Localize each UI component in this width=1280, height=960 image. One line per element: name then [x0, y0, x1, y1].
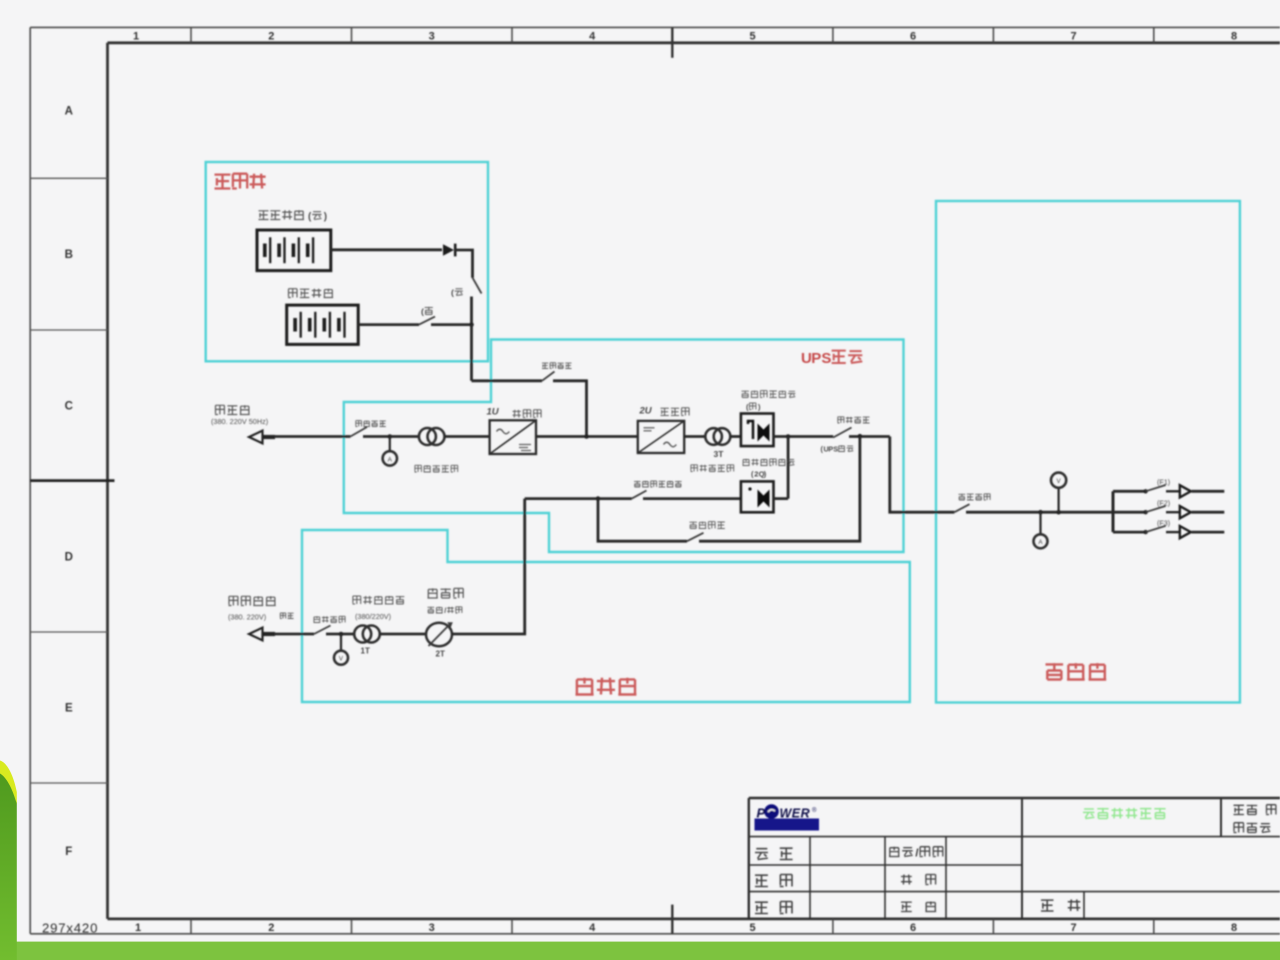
label backup source — [229, 596, 276, 605]
svg-text:S: S — [821, 350, 831, 367]
label regulator — [428, 588, 464, 598]
UPS main section box — [344, 340, 904, 553]
svg-text:(: ( — [451, 288, 454, 298]
label approve row — [755, 848, 793, 860]
column ticks top/bottom — [190, 27, 192, 42]
maintenance bypass drop — [598, 499, 687, 542]
wire output switch to corner — [849, 435, 890, 438]
svg-text:5: 5 — [750, 31, 756, 43]
svg-text:E: E — [65, 703, 73, 715]
svg-text:D: D — [65, 551, 73, 563]
sheet outer frame — [30, 26, 1280, 28]
svg-text:6: 6 — [910, 922, 916, 934]
label input switch — [356, 421, 386, 427]
wire switch to junction — [470, 297, 473, 325]
bypass meter stub — [340, 634, 342, 651]
bypass cabinet section box — [302, 530, 910, 702]
svg-text:/: / — [444, 606, 446, 615]
feeder branch 1 — [1113, 490, 1146, 493]
battery bank 2 label — [288, 289, 333, 298]
svg-text:): ) — [324, 212, 327, 223]
battery bank 2 — [287, 305, 359, 344]
label DC input switch — [542, 363, 572, 369]
DC bus down to UPS — [470, 325, 473, 381]
label bypass input switch — [314, 616, 346, 622]
svg-text:2: 2 — [268, 922, 274, 934]
svg-text:A: A — [65, 105, 73, 117]
DC link to inverter bus — [553, 381, 587, 437]
maintenance bypass wire to riser up — [699, 437, 860, 542]
svg-text:5: 5 — [750, 922, 756, 934]
svg-text:1: 1 — [135, 922, 141, 934]
center mark top — [671, 27, 673, 57]
rectifier DC switch blade — [542, 372, 555, 381]
label date cell — [901, 902, 936, 912]
input switch blade — [350, 427, 367, 437]
wire to bypass static box — [643, 497, 741, 500]
svg-text:2: 2 — [268, 31, 274, 43]
row divider lines left strip — [30, 177, 107, 179]
DC link horizontal with switch — [472, 379, 543, 382]
company name green — [1083, 808, 1166, 819]
rectifier U1 box — [490, 420, 536, 454]
title block horizontals — [749, 836, 1280, 838]
svg-text:P: P — [811, 350, 821, 367]
svg-text:2T: 2T — [436, 650, 445, 659]
svg-text:(380. 220V): (380. 220V) — [228, 613, 266, 622]
label bypass transformer — [353, 596, 405, 604]
label output switch — [838, 417, 870, 423]
svg-text:C: C — [65, 400, 73, 412]
battery bank 1 — [257, 230, 331, 271]
label mains source — [215, 405, 250, 414]
center mark bottom — [671, 905, 673, 934]
svg-text:1U: 1U — [487, 407, 500, 418]
wire mains to input switch — [274, 435, 350, 438]
wire to static switch — [730, 435, 741, 438]
svg-text:4: 4 — [589, 922, 596, 934]
center mark left — [30, 479, 114, 482]
switch 1K blade (vertical wire) — [473, 278, 482, 294]
wire battery2 to switch — [358, 323, 419, 326]
feeder meter down — [1038, 510, 1043, 515]
wire transformer to regulator — [380, 633, 426, 636]
svg-text:(F2): (F2) — [1157, 498, 1170, 507]
switch 2K blade — [419, 317, 435, 325]
label review row — [755, 875, 792, 887]
feeder meter up — [1056, 510, 1061, 515]
static bypass input wire — [525, 497, 632, 500]
mains source arrow — [249, 431, 263, 444]
svg-text:(F1): (F1) — [1157, 478, 1170, 487]
green ribbon yellow highlight — [0, 761, 17, 805]
label static switch — [742, 391, 796, 398]
voltage regulator — [426, 623, 452, 647]
wire bypass box to riser — [774, 497, 789, 500]
svg-text:1: 1 — [133, 31, 139, 43]
label bypass static switch — [743, 459, 795, 466]
svg-text:3: 3 — [429, 922, 435, 934]
wire static switch to output — [774, 435, 834, 438]
svg-text:7: 7 — [1071, 31, 1077, 43]
wire regulator up to static bypass — [452, 499, 525, 634]
svg-text:S: S — [833, 445, 838, 454]
wire inverter to output transformer — [684, 435, 705, 438]
svg-text:2U: 2U — [639, 406, 653, 417]
feeder bus — [1112, 491, 1115, 532]
title block outer — [749, 797, 1280, 799]
label static bypass input — [634, 481, 682, 487]
svg-text:®: ® — [812, 807, 817, 814]
svg-text:/: / — [915, 848, 918, 860]
feeder cabinet section box — [936, 201, 1240, 703]
svg-text:(380. 220V 50Hz): (380. 220V 50Hz) — [211, 417, 268, 426]
company logo — [755, 819, 820, 831]
title block verticals — [809, 837, 811, 919]
label scale cell — [901, 875, 936, 885]
DC panel section box — [206, 162, 488, 361]
svg-text:4: 4 — [589, 31, 596, 43]
svg-text:B: B — [65, 249, 73, 261]
wire rectifier to DC junction to inverter — [536, 435, 638, 438]
label feeder input — [959, 494, 991, 500]
bypass input switch blade — [314, 626, 331, 635]
wire battery1 to diode — [331, 248, 442, 251]
label feeder cabinet (red) — [1046, 663, 1107, 679]
svg-text:1T: 1T — [361, 647, 370, 656]
sheet inner border — [108, 41, 1280, 44]
wire diode to corner and down — [454, 250, 473, 278]
label check row — [755, 902, 792, 914]
svg-text:A: A — [388, 456, 393, 463]
output isolation transformer — [705, 428, 722, 445]
label maintenance bypass — [690, 522, 725, 529]
feeder input switch blade — [954, 504, 969, 512]
svg-text:6: 6 — [910, 31, 916, 43]
wire backup to bypass switch — [274, 633, 314, 636]
svg-text:P: P — [757, 806, 766, 821]
bypass isolation transformer — [354, 626, 371, 643]
static switch box (main) — [741, 414, 774, 447]
svg-text:3T: 3T — [714, 449, 725, 459]
svg-text:8: 8 — [1231, 31, 1237, 43]
project cell text — [1234, 805, 1276, 815]
label bypass cabinet (red) — [576, 678, 637, 695]
green ribbon bottom band — [10, 942, 1280, 960]
svg-text:(380/220V): (380/220V) — [355, 612, 391, 621]
output switch blade — [833, 428, 851, 438]
label drawing number cell — [1041, 899, 1080, 911]
backup source arrow — [249, 628, 263, 641]
svg-text:F: F — [65, 846, 72, 858]
wire switch2 to DC bus — [431, 323, 472, 326]
svg-text:7: 7 — [1071, 922, 1077, 934]
riser to bypass static output — [787, 437, 790, 499]
svg-text:297x420: 297x420 — [42, 920, 98, 935]
maintenance bypass switch blade — [687, 533, 704, 541]
bypass static switch box — [741, 481, 774, 512]
static bypass switch blade — [632, 491, 647, 499]
diode D1 — [443, 244, 454, 256]
input isolation transformer — [419, 428, 436, 445]
label DC panel (red) — [215, 174, 266, 189]
svg-text:8: 8 — [1231, 922, 1237, 934]
feeder branch 2 — [1113, 511, 1146, 514]
wire to CT junction — [363, 435, 390, 438]
feeder branch 3 — [1113, 531, 1146, 534]
svg-text:3: 3 — [429, 31, 435, 43]
wire to junction — [326, 633, 354, 636]
svg-text:WER: WER — [780, 807, 811, 821]
svg-text:(F3): (F3) — [1157, 518, 1170, 527]
label input transformer — [415, 465, 458, 472]
battery bank 1 label — [259, 210, 305, 219]
svg-text:(: ( — [421, 307, 424, 317]
output corner down — [890, 437, 955, 513]
wire to input transformer — [390, 435, 419, 438]
feeder main wire — [966, 511, 1113, 514]
ammeter stub + meter — [389, 437, 391, 452]
wire to rectifier — [445, 435, 490, 438]
inverter U2 box — [638, 421, 684, 453]
